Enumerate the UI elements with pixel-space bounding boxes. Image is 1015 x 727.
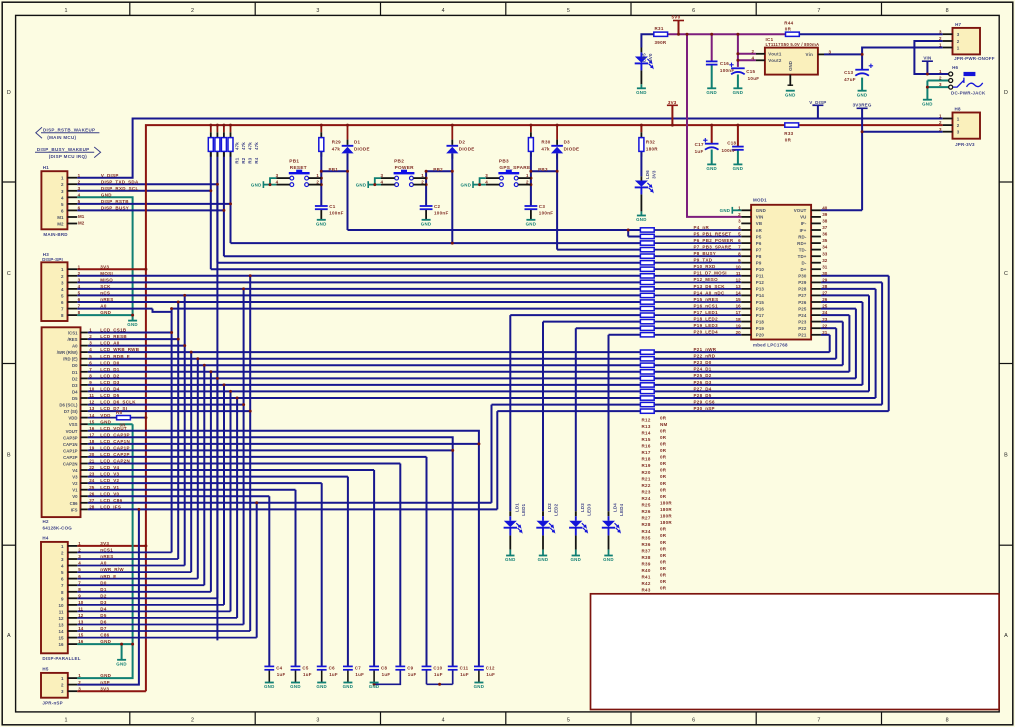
svg-text:R14: R14: [642, 431, 651, 436]
svg-text:17: 17: [89, 432, 95, 437]
ground symbol C15: [733, 88, 744, 95]
svg-text:26: 26: [89, 491, 95, 496]
svg-text:22: 22: [89, 465, 95, 470]
svg-text:0R: 0R: [660, 435, 667, 440]
svg-text:LD3: LD3: [580, 503, 585, 512]
svg-text:P28: P28: [798, 287, 807, 292]
svg-text:GND: GND: [264, 684, 275, 689]
connector H6 DC-PWR-JACK: [939, 65, 986, 96]
ground symbol C4: [264, 683, 275, 690]
ground symbol C17: [706, 164, 717, 171]
wire row P7: [557, 249, 640, 251]
svg-text:GND: GND: [316, 221, 327, 226]
flag DISP_BUSY_WAKEUP: [35, 147, 101, 159]
connector H7 JPR-PWR-ONOFF: [939, 22, 995, 61]
svg-text:1uF: 1uF: [355, 672, 364, 677]
svg-text:28: 28: [822, 284, 828, 289]
svg-text:13: 13: [58, 623, 64, 628]
resistor R4: [228, 138, 259, 164]
svg-text:21: 21: [89, 459, 95, 464]
svg-text:P17: P17: [756, 313, 765, 318]
svg-text:0R: 0R: [660, 553, 667, 558]
svg-text:8: 8: [946, 718, 949, 724]
svg-text:VB: VB: [756, 221, 762, 226]
svg-text:1: 1: [65, 8, 68, 14]
svg-text:R36: R36: [642, 542, 651, 547]
capacitor C6: [317, 665, 338, 677]
svg-text:P24_D1: P24_D1: [694, 367, 712, 372]
svg-text:16: 16: [78, 639, 84, 644]
wire net 3V3 H3 pin1: [77, 268, 146, 270]
svg-text:C86: C86: [70, 501, 78, 506]
wire rows CAP1N..V0 to C12..C4: [88, 444, 479, 667]
svg-text:PB3: PB3: [499, 158, 509, 163]
svg-text:GND: GND: [785, 92, 796, 97]
wire row P4_nR: [348, 230, 641, 237]
svg-text:H7: H7: [955, 22, 961, 27]
svg-text:R15: R15: [642, 437, 651, 442]
svg-text:LCD_WRB_RWB: LCD_WRB_RWB: [100, 347, 139, 352]
svg-text:P27: P27: [798, 293, 807, 298]
svg-text:0R: 0R: [660, 586, 667, 591]
LED LD4: [602, 503, 624, 536]
LED LD5: [635, 53, 654, 71]
svg-text:10: 10: [78, 600, 84, 605]
wire H4 rows 2-14: [77, 552, 257, 637]
svg-text:VDD: VDD: [100, 413, 111, 418]
svg-text:VDD: VDD: [68, 416, 77, 421]
wire net 3V3 H4 pin1: [77, 545, 146, 547]
svg-text:V2: V2: [72, 481, 78, 486]
svg-text:P18: P18: [756, 319, 765, 324]
svg-text:P17_LED1: P17_LED1: [694, 310, 719, 315]
svg-text:P6: P6: [756, 241, 762, 246]
svg-text:C17: C17: [695, 142, 704, 147]
svg-text:LCD_CAP1P: LCD_CAP1P: [100, 446, 129, 451]
svg-text:NM: NM: [660, 422, 668, 427]
svg-text:C4: C4: [276, 665, 282, 670]
wire D2 column: [451, 125, 453, 243]
resistor R29: [319, 138, 341, 152]
svg-text:R19: R19: [642, 463, 651, 468]
wire C13 to GND: [861, 78, 863, 91]
svg-text:P7_PB3_SPARE: P7_PB3_SPARE: [694, 245, 732, 250]
svg-text:R21: R21: [642, 476, 651, 481]
svg-text:23: 23: [89, 472, 95, 477]
net labels P21-P30: [694, 347, 717, 411]
svg-text:MAIN-BRD: MAIN-BRD: [43, 232, 68, 237]
svg-text:LCD_CAP2N: LCD_CAP2N: [100, 459, 130, 464]
capacitor C5: [291, 665, 312, 677]
svg-text:DISP_RXD_SCL: DISP_RXD_SCL: [101, 186, 139, 191]
svg-text:POWER: POWER: [395, 165, 415, 170]
svg-text:R38: R38: [642, 555, 651, 560]
svg-text:M2: M2: [57, 222, 64, 227]
resistor R31: [654, 26, 668, 45]
wire net V_DISP: [77, 119, 943, 178]
capacitor C4: [264, 665, 285, 677]
wire 5V0 flag stem: [678, 21, 680, 35]
resistor R3: [221, 138, 252, 164]
diode D3: [551, 140, 579, 154]
capacitor C7: [343, 665, 364, 677]
svg-text:1uF: 1uF: [329, 672, 338, 677]
svg-text:LCD_CAP1N: LCD_CAP1N: [100, 439, 130, 444]
wire ladder verticals k0-k12: [172, 276, 251, 631]
svg-text:0R: 0R: [660, 559, 667, 564]
svg-text:TD-: TD-: [799, 247, 807, 252]
ground symbol H4 GND: [116, 660, 127, 667]
svg-text:C7: C7: [355, 665, 361, 670]
svg-text:5: 5: [567, 718, 570, 724]
svg-text:20: 20: [89, 452, 95, 457]
svg-text:nCS: nCS: [100, 291, 110, 296]
wire H6 ground: [927, 81, 948, 100]
svg-text:P15_nRES: P15_nRES: [694, 297, 719, 302]
svg-text:P21_nWR: P21_nWR: [694, 347, 717, 352]
svg-text:C2: C2: [434, 204, 441, 209]
wire rows LCD_VOUT LCD_CAP3P: [88, 431, 479, 451]
svg-text:P28_D5: P28_D5: [694, 393, 712, 398]
svg-text:LD5: LD5: [642, 53, 647, 62]
power flag V_DISP: [809, 100, 826, 105]
svg-text:P22: P22: [798, 326, 807, 331]
svg-text:R29: R29: [332, 140, 341, 145]
svg-text:Vout2: Vout2: [768, 58, 782, 63]
svg-text:P24: P24: [798, 313, 807, 318]
net label PB1: [329, 167, 339, 172]
svg-text:D2: D2: [72, 376, 78, 381]
svg-text:12: 12: [89, 400, 95, 405]
svg-text:100nF: 100nF: [329, 210, 344, 215]
svg-text:V3: V3: [72, 475, 78, 480]
svg-text:0R: 0R: [660, 546, 667, 551]
svg-text:nSP: nSP: [100, 680, 110, 685]
svg-text:P29: P29: [798, 280, 807, 285]
svg-text:VSS: VSS: [69, 422, 78, 427]
svg-text:R2: R2: [241, 157, 246, 163]
svg-text:P26_D3: P26_D3: [694, 380, 712, 385]
svg-text:GND: GND: [706, 166, 717, 171]
ground flag MOD1 pin1: [720, 207, 742, 214]
svg-text:P23: P23: [798, 319, 807, 324]
svg-text:CAP2N: CAP2N: [63, 462, 78, 467]
svg-text:P10: P10: [756, 267, 765, 272]
svg-text:37: 37: [822, 225, 828, 230]
svg-text:A0: A0: [100, 561, 107, 566]
svg-text:P8_BUSY: P8_BUSY: [694, 251, 717, 256]
svg-text:0R: 0R: [660, 442, 667, 447]
svg-text:10: 10: [736, 264, 742, 269]
ground symbol C6: [316, 683, 327, 690]
wire net PB1: [321, 170, 347, 172]
svg-text:GND: GND: [100, 639, 111, 644]
svg-text:1uF: 1uF: [695, 149, 704, 154]
svg-text:20: 20: [736, 330, 742, 335]
svg-text:19: 19: [89, 446, 95, 451]
svg-text:LCD_V0: LCD_V0: [100, 491, 119, 496]
svg-text:P9_TXD: P9_TXD: [694, 258, 713, 263]
svg-text:P19: P19: [756, 326, 765, 331]
svg-text:24: 24: [89, 478, 95, 483]
svg-text:LT1117S50 5.0V / 800mA: LT1117S50 5.0V / 800mA: [766, 42, 820, 47]
svg-text:R12: R12: [642, 417, 651, 422]
svg-text:18: 18: [736, 317, 742, 322]
svg-text:C10: C10: [433, 665, 442, 670]
ground symbol C3: [526, 220, 537, 227]
svg-text:GND: GND: [538, 557, 549, 562]
svg-text:47k: 47k: [248, 142, 253, 150]
svg-text:23: 23: [822, 317, 828, 322]
svg-text:R3: R3: [248, 157, 253, 163]
svg-text:A0: A0: [72, 344, 78, 349]
svg-text:6: 6: [692, 718, 695, 724]
svg-text:4: 4: [442, 8, 445, 14]
svg-text:GND: GND: [290, 684, 301, 689]
svg-text:H8: H8: [955, 107, 961, 112]
svg-text:LCD_RESB: LCD_RESB: [100, 334, 127, 339]
svg-text:P13_D6_SCK: P13_D6_SCK: [694, 284, 726, 289]
svg-text:DC-PWR-JACK: DC-PWR-JACK: [951, 91, 986, 96]
wire net GND H4 pin16: [77, 644, 132, 660]
svg-text:180R: 180R: [660, 520, 672, 525]
svg-text:C1: C1: [329, 204, 336, 209]
capacitor C8: [369, 665, 390, 677]
ground symbol C2: [421, 220, 432, 227]
svg-text:C15: C15: [746, 69, 755, 74]
wire row P12 MISO: [77, 281, 640, 283]
svg-text:180R: 180R: [646, 147, 658, 152]
capacitor C17: [695, 138, 719, 154]
svg-text:13: 13: [736, 284, 742, 289]
ground symbol LD4: [603, 556, 614, 563]
svg-text:GND: GND: [116, 661, 127, 666]
svg-text:MOD1: MOD1: [753, 198, 767, 203]
svg-text:D1: D1: [354, 140, 361, 145]
module MOD1 mbed LPC1768: [736, 198, 828, 348]
svg-text:CAP2P: CAP2P: [63, 455, 77, 460]
svg-text:26: 26: [822, 297, 828, 302]
svg-text:P19_LED3: P19_LED3: [694, 323, 719, 328]
svg-text:21: 21: [822, 330, 828, 335]
svg-text:CAP1P: CAP1P: [63, 448, 77, 453]
pushbutton PB3 GPS_SPARE: [461, 158, 531, 188]
wire C15 to GND: [737, 75, 739, 89]
svg-text:P10_RXD: P10_RXD: [694, 264, 717, 269]
power flag 3V3REG: [853, 102, 872, 108]
svg-text:D3: D3: [72, 383, 78, 388]
svg-text:D0: D0: [72, 363, 78, 368]
wire row P5: [628, 236, 640, 238]
svg-text:D0: D0: [100, 580, 107, 585]
svg-text:GND: GND: [706, 90, 717, 95]
svg-text:R17: R17: [642, 450, 651, 455]
svg-text:P12: P12: [756, 280, 765, 285]
svg-text:P23_D0: P23_D0: [694, 360, 712, 365]
LED LD6: [635, 170, 657, 195]
wire row P29_CS6: [492, 282, 883, 502]
resistor R5: [116, 410, 130, 427]
svg-text:RD+: RD+: [797, 241, 807, 246]
wire row P30_nSP: [497, 276, 888, 510]
svg-text:11: 11: [89, 393, 94, 398]
svg-text:R25: R25: [642, 503, 651, 508]
svg-text:LCD_V2: LCD_V2: [100, 478, 119, 483]
wire VIN net: [824, 41, 949, 74]
wire rows LCD_WRB..LCD_D5 / P21-P28: [88, 289, 876, 398]
svg-text:GND: GND: [505, 557, 516, 562]
wire net GND H2 row15: [77, 424, 132, 678]
svg-text:1uF: 1uF: [434, 672, 443, 677]
svg-text:D4: D4: [72, 389, 78, 394]
svg-text:180R: 180R: [660, 507, 672, 512]
resistor R30: [528, 138, 550, 152]
svg-text:15: 15: [89, 419, 95, 424]
svg-text:0R: 0R: [660, 481, 667, 486]
svg-text:/RD (E): /RD (E): [63, 357, 78, 362]
svg-text:R42: R42: [642, 581, 651, 586]
connector H2 64128K-COG: [42, 327, 140, 530]
svg-text:R30: R30: [541, 140, 550, 145]
wire R31 LED LD5 column: [641, 34, 653, 88]
capacitor C3: [525, 204, 554, 215]
svg-text:29: 29: [822, 278, 828, 283]
resistor list R12-R43: [642, 415, 673, 592]
svg-text:100nF: 100nF: [539, 210, 554, 215]
bus 3V3 rail: [146, 125, 943, 691]
svg-text:C9: C9: [407, 665, 413, 670]
svg-text:IFS: IFS: [71, 507, 78, 512]
svg-text:34: 34: [822, 245, 828, 250]
svg-text:R32: R32: [646, 140, 655, 145]
svg-text:P11_D7_MOSI: P11_D7_MOSI: [694, 271, 727, 276]
title block: [591, 594, 1000, 710]
svg-text:0R: 0R: [120, 423, 127, 428]
svg-text:27: 27: [822, 291, 828, 296]
svg-text:0R: 0R: [660, 487, 667, 492]
svg-text:R24: R24: [642, 496, 651, 501]
pushbutton PB2 POWER: [356, 158, 426, 188]
svg-text:15: 15: [736, 297, 742, 302]
svg-text:P12_MISO: P12_MISO: [694, 277, 719, 282]
svg-text:3V3: 3V3: [100, 686, 109, 691]
wire row LCD_C86: [88, 503, 492, 638]
svg-text:3V3: 3V3: [652, 170, 657, 179]
svg-text:LCD_D6_SCLK: LCD_D6_SCLK: [100, 400, 136, 405]
svg-text:A: A: [7, 633, 11, 639]
wire 5V0 to MOD1 VIN (purple): [687, 34, 741, 217]
svg-text:IF+: IF+: [800, 228, 807, 233]
ground symbol C13: [857, 91, 868, 98]
resistor R2: [215, 138, 246, 164]
LED LD1: [504, 503, 526, 536]
svg-text:R18: R18: [642, 457, 651, 462]
wire R30 PB3 column: [530, 125, 532, 220]
svg-text:39: 39: [822, 212, 828, 217]
wire net DISP_RXD_SCL: [77, 151, 211, 269]
svg-text:LD6: LD6: [645, 170, 650, 179]
svg-text:16: 16: [58, 642, 64, 647]
svg-text:nR: nR: [756, 228, 763, 233]
svg-text:JPR-PWR-ONOFF: JPR-PWR-ONOFF: [954, 56, 995, 61]
wire row P16 nCS1 with A0 jog: [77, 309, 640, 312]
wire D1 column: [347, 125, 349, 230]
svg-text:0R: 0R: [660, 579, 667, 584]
svg-text:4: 4: [442, 718, 445, 724]
svg-text:180R: 180R: [660, 514, 672, 519]
svg-text:GND: GND: [570, 557, 581, 562]
svg-text:0R: 0R: [660, 468, 667, 473]
svg-text:R41: R41: [642, 575, 651, 580]
svg-text:RD-: RD-: [798, 234, 807, 239]
capacitor C10: [422, 665, 443, 677]
wire row P8: [224, 255, 641, 257]
svg-text:nCS1: nCS1: [100, 548, 113, 553]
svg-text:GND: GND: [100, 419, 111, 424]
resistor R33: [784, 123, 798, 143]
svg-text:DIODE: DIODE: [459, 147, 475, 152]
svg-text:GPS_SPARE: GPS_SPARE: [499, 165, 530, 170]
svg-text:31: 31: [822, 264, 828, 269]
svg-text:mbed LPC1768: mbed LPC1768: [753, 343, 788, 348]
svg-text:GND: GND: [101, 192, 112, 197]
svg-text:H5: H5: [42, 667, 48, 672]
svg-text:5: 5: [567, 8, 570, 14]
svg-text:11: 11: [736, 271, 741, 276]
svg-text:0R: 0R: [660, 415, 667, 420]
svg-text:C: C: [1004, 271, 1008, 277]
capacitor C2: [420, 204, 449, 215]
wire H2 rows 1-3: [88, 333, 185, 346]
svg-text:GND: GND: [100, 310, 111, 315]
svg-text:(DISP MCU IRQ): (DISP MCU IRQ): [49, 154, 88, 159]
svg-text:D2: D2: [100, 593, 107, 598]
svg-text:R27: R27: [642, 516, 651, 521]
svg-text:GND: GND: [733, 90, 744, 95]
svg-text:13: 13: [89, 406, 95, 411]
svg-text:H2: H2: [43, 519, 49, 524]
svg-text:P4_nR: P4_nR: [694, 225, 710, 230]
svg-text:V0: V0: [72, 494, 78, 499]
svg-text:GND: GND: [922, 101, 933, 106]
svg-text:GND: GND: [788, 61, 793, 71]
svg-text:32: 32: [822, 258, 828, 263]
svg-text:C8: C8: [381, 665, 387, 670]
svg-text:40: 40: [822, 205, 828, 210]
svg-text:0R: 0R: [660, 533, 667, 538]
svg-text:SCK: SCK: [100, 284, 111, 289]
ground symbol LD2: [538, 556, 549, 563]
svg-text:nRES: nRES: [100, 554, 113, 559]
svg-text:R26: R26: [642, 509, 651, 514]
svg-text:10: 10: [89, 387, 95, 392]
svg-text:P13: P13: [756, 287, 765, 292]
svg-text:3V3: 3V3: [100, 264, 109, 269]
ground symbol LD1: [505, 556, 516, 563]
svg-text:GND: GND: [316, 684, 327, 689]
svg-text:P20: P20: [756, 333, 765, 338]
diode D1: [341, 140, 369, 154]
svg-text:LCD_V4: LCD_V4: [100, 465, 119, 470]
svg-text:LD2: LD2: [547, 503, 552, 512]
LED LD3: [569, 503, 591, 536]
wire R1-R4 pullup stems: [211, 125, 231, 157]
svg-text:/CS1: /CS1: [68, 331, 78, 336]
svg-text:VOUT: VOUT: [794, 208, 807, 213]
svg-text:P29_CS6: P29_CS6: [694, 399, 716, 404]
connector H8 JPR-3V3: [939, 107, 980, 148]
svg-text:3V3REG: 3V3REG: [853, 102, 872, 107]
